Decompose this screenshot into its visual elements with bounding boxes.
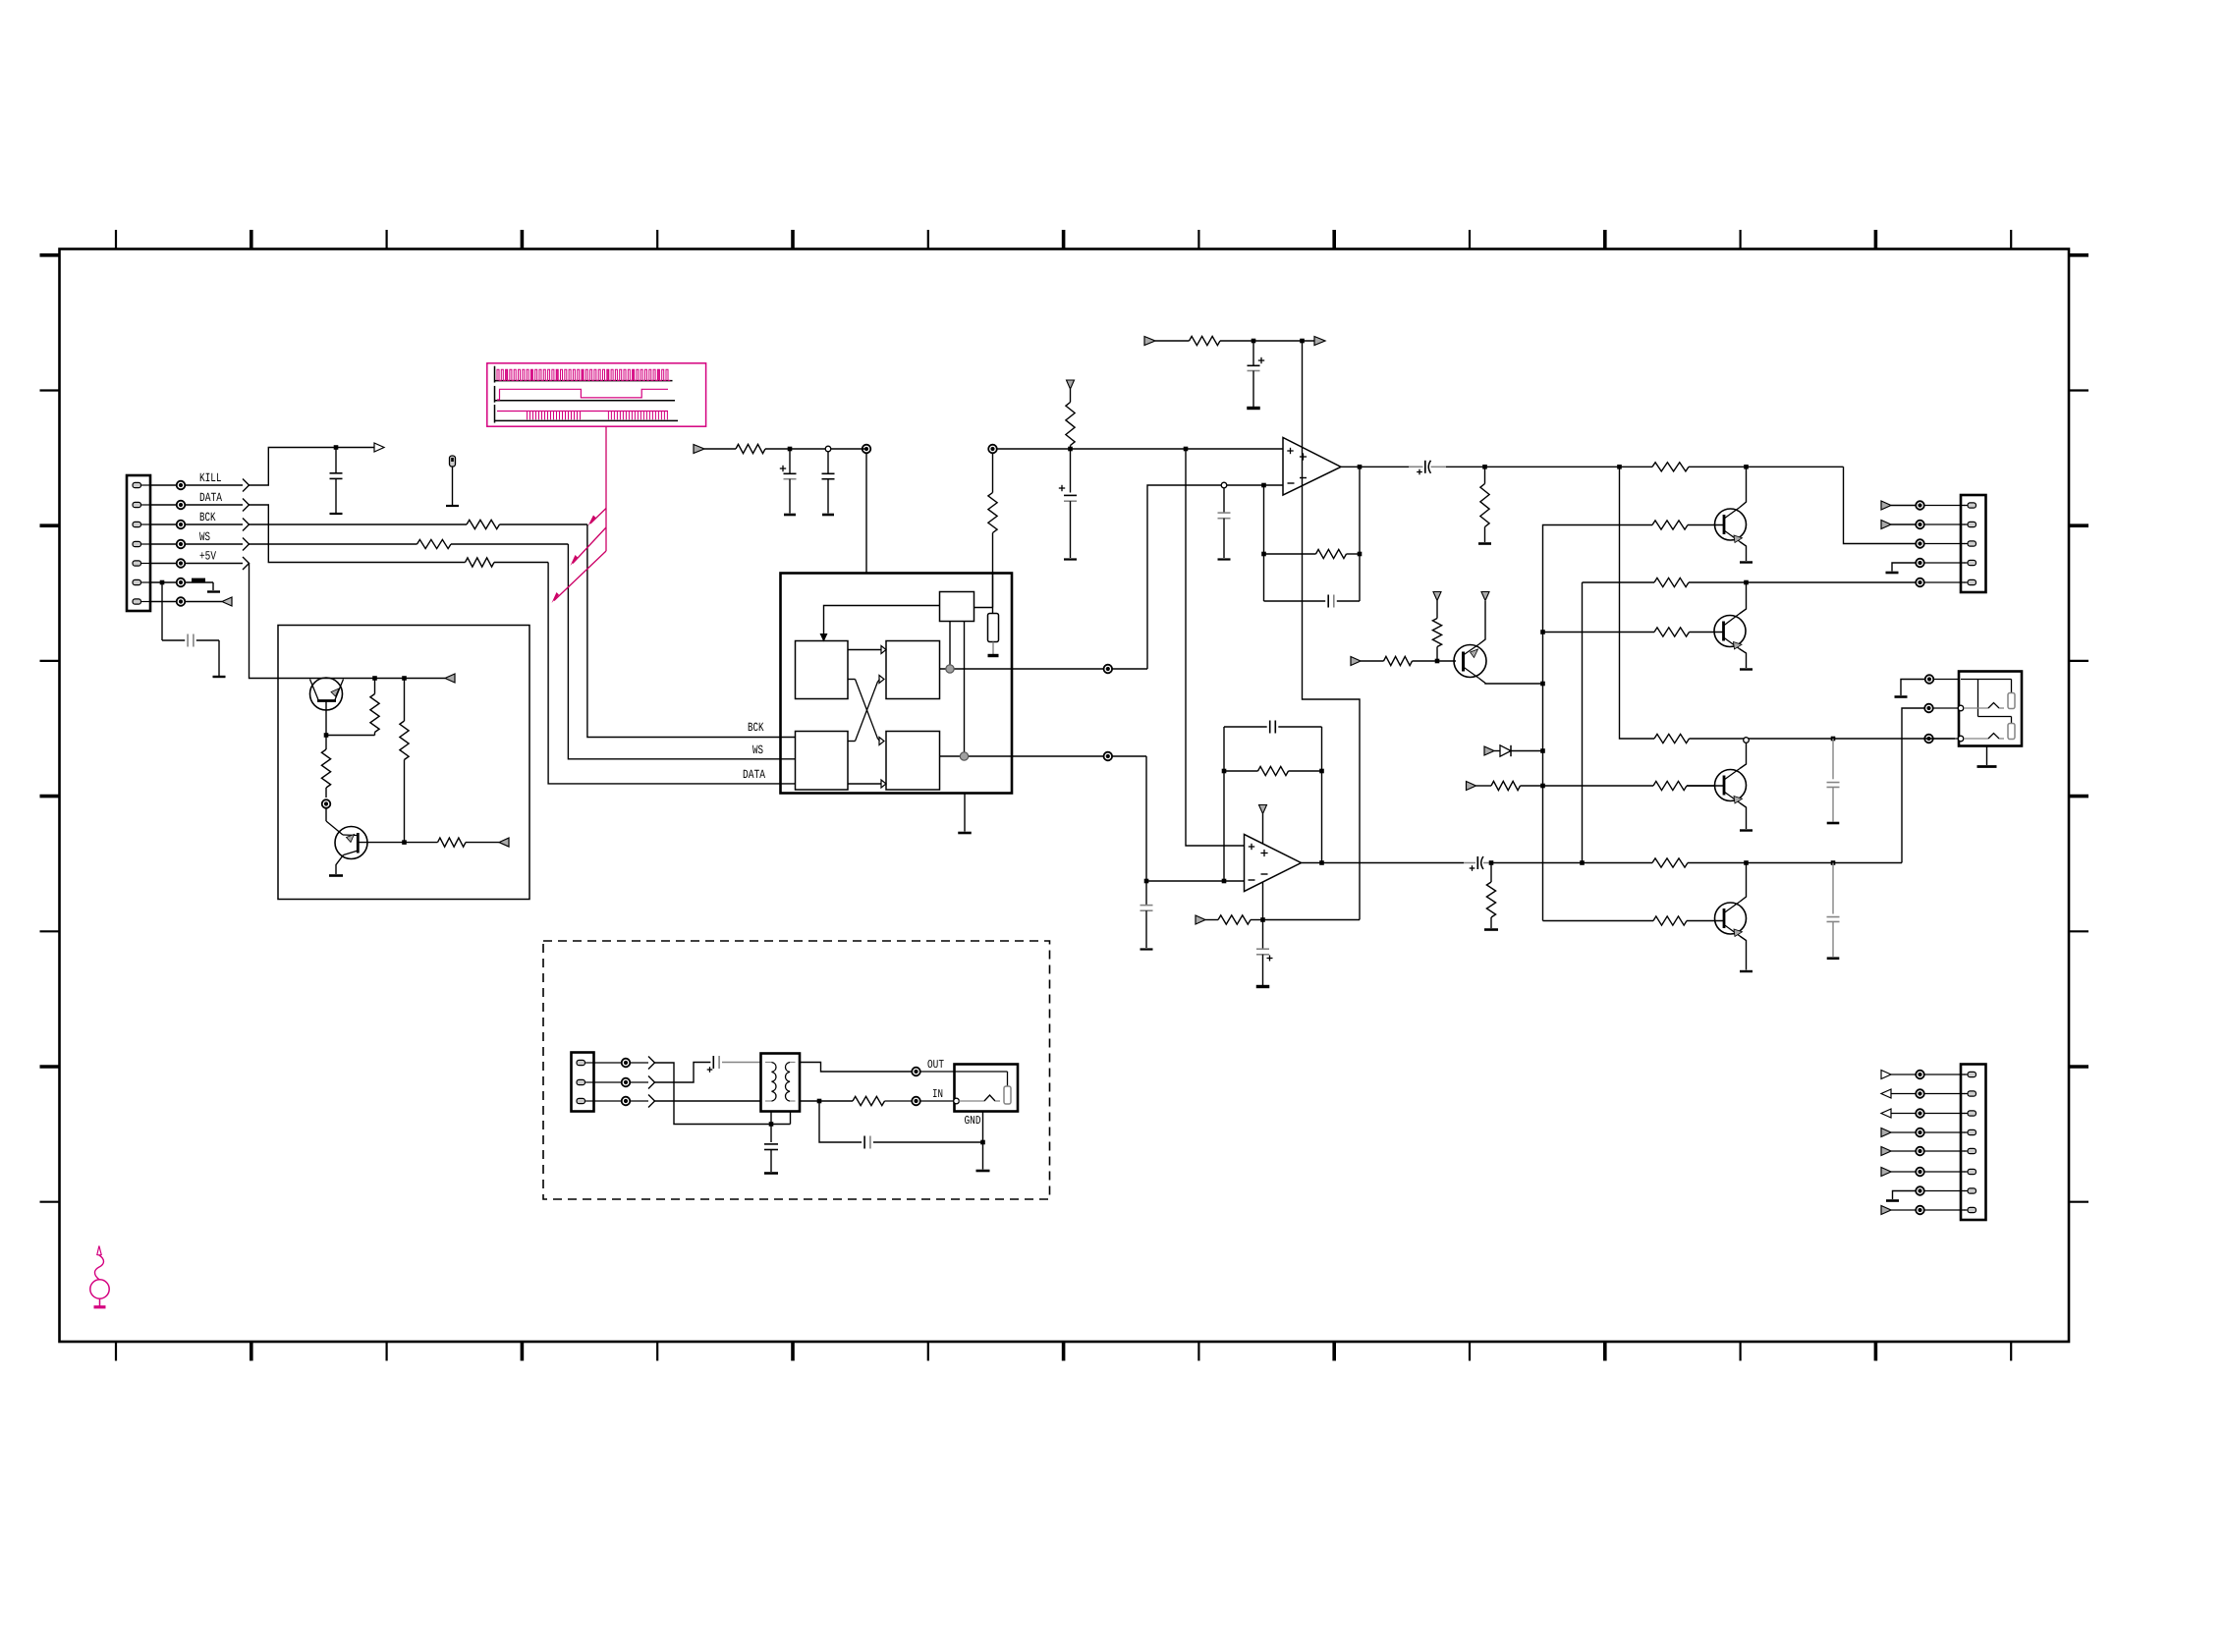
wire DAC out L to op-amp1: [1104, 483, 1284, 674]
svg-text:+5V: +5V: [199, 550, 216, 564]
U1 internal block B: [886, 641, 940, 699]
op-amp U3: [1245, 835, 1302, 892]
resistor R16 rail R series: [1654, 578, 1689, 586]
arrow J5 row8: [1881, 1206, 1891, 1215]
capacitor C13 headphone L: [1827, 739, 1840, 823]
resistor R11 bias: [1190, 336, 1221, 345]
wire KILL net: [250, 448, 375, 486]
wire BCK net: [250, 524, 796, 738]
resistor R20 feedback R: [1258, 766, 1289, 775]
resistor R10 vertical: [988, 493, 997, 533]
J4 internals: [1958, 680, 2015, 742]
resistor R27 Q6 base: [1543, 781, 1715, 790]
svg-text:WS: WS: [752, 743, 763, 757]
svg-text:BCK: BCK: [199, 511, 216, 524]
resistor R8 supply: [736, 444, 765, 453]
resistor R5 bias: [400, 679, 409, 843]
capacitor C2 below J1: [162, 582, 226, 677]
transistor Q3: [1454, 601, 1543, 684]
power arrow Q3 collector: [1481, 592, 1489, 601]
svg-text:IN: IN: [932, 1087, 943, 1101]
connector J6: [572, 1053, 595, 1112]
diode D1: [1484, 745, 1543, 756]
J4 row1 ground: [1895, 675, 1960, 696]
wire J6 row3: [655, 1100, 761, 1102]
wire U1 output top: [940, 622, 1104, 674]
J6 rings and chevrons: [594, 1057, 655, 1108]
wire bias rail: [1155, 339, 1314, 344]
wire mute net: [1361, 659, 1456, 664]
sub-circuit box B1: [278, 626, 529, 900]
wire U1 output bottom: [940, 622, 1104, 761]
capacitor C12 rail R: [1827, 863, 1840, 959]
svg-text:OUT: OUT: [927, 1058, 944, 1072]
resistor R24 Q7 base: [1653, 916, 1687, 925]
timing waveform WS: [495, 386, 676, 403]
arrow J5 row5: [1881, 1147, 1891, 1156]
resistor R22 load R: [1484, 863, 1498, 930]
resistor R3 DATA series: [466, 558, 495, 567]
J4 row3 ring: [1924, 735, 1959, 743]
border tick marks: [40, 230, 2089, 1361]
op-amp U2: [1283, 438, 1341, 496]
wire DATA net: [250, 505, 796, 784]
svg-text:WS: WS: [199, 530, 210, 544]
wire U1 control to block A: [820, 606, 940, 642]
wire Q2 emitter to ground: [329, 855, 344, 876]
wire T1 secondary bottom: [800, 1099, 853, 1104]
arrow KILL out: [374, 443, 384, 452]
arrow bias out: [1314, 337, 1325, 346]
wire DAC out R to op-amp2: [1104, 752, 1245, 884]
arrow mute in: [1351, 657, 1361, 666]
arrow rail out left: [445, 674, 455, 683]
arrow bias2 in: [1196, 915, 1205, 924]
wire arrow R7: [466, 838, 509, 847]
resistor R23 rail R series: [1652, 858, 1688, 867]
U1 internal block C: [796, 732, 849, 791]
resistor R15 Q4 base: [1652, 521, 1688, 529]
J4 row2 ring: [1924, 704, 1959, 713]
connector J3: [1961, 495, 1986, 592]
wire headphone feed L: [1620, 467, 1956, 741]
resistor R18 mute series: [1384, 656, 1413, 665]
ground J7: [976, 1112, 990, 1172]
wire DAC VDD drop: [865, 453, 867, 573]
resistor R21 bias2: [1205, 915, 1263, 924]
capacitor C10 electrolytic bias2: [1256, 920, 1273, 987]
svg-text:KILL: KILL: [199, 471, 222, 485]
wire op-amp2 +input: [1186, 449, 1245, 846]
capacitor C7 on inverting node: [1218, 482, 1231, 559]
capacitor C15 transformer ground: [764, 1112, 778, 1174]
antenna symbol: [90, 1246, 109, 1307]
node ring DAC ref: [988, 445, 997, 454]
resistor R9 pullup: [1066, 380, 1075, 449]
wire ref net: [997, 447, 1283, 452]
arrow VCC in: [694, 445, 704, 454]
J1 pin wires and node rings: [150, 481, 185, 606]
arrow J5 row2: [1881, 1089, 1891, 1098]
J5 rings and wires: [1891, 1071, 1966, 1215]
wire op-amp1 output: [1341, 465, 1421, 469]
capacitor C8 output series: [1409, 461, 1446, 475]
wire U1 block A to B arrows: [848, 646, 886, 789]
connector J5: [1961, 1065, 1986, 1221]
ground J3 row4: [1886, 563, 1917, 573]
resistor R12 feedback: [1316, 549, 1347, 558]
wire Q1 emitter rail: [311, 676, 446, 681]
resistor R6 below Q1 base: [321, 736, 330, 798]
transistor Q2: [335, 827, 367, 859]
capacitor C16 IN to GND: [819, 1101, 985, 1149]
arrow J1 pin7 out: [185, 597, 232, 606]
capacitor C3 electrolytic: [780, 449, 797, 515]
ground U1: [958, 794, 972, 834]
arrow J5 row6: [1881, 1168, 1891, 1177]
ground J4 case: [1977, 746, 1997, 767]
connector J7 jack: [954, 1065, 1018, 1112]
arrow J3 row2: [1881, 521, 1891, 529]
resistor R7 output: [438, 838, 467, 847]
signal labels KILL DATA BCK WS +5V: [199, 471, 222, 564]
resistor R13 load to ground: [1478, 467, 1491, 543]
transistor Q4: [1688, 467, 1753, 562]
wire Q5 base link: [1543, 632, 1655, 633]
resistor R14 rail series: [1652, 463, 1689, 471]
resistor R25 headphone L: [1654, 734, 1690, 743]
IC U1 DAC outer box: [781, 574, 1013, 794]
svg-text:DATA: DATA: [743, 768, 765, 782]
transistor Q7: [1687, 863, 1753, 972]
capacitor C5 electrolytic ref: [1059, 449, 1077, 560]
wire J6 row1: [655, 1063, 791, 1127]
wire op-amp2 bias node: [1260, 883, 1360, 922]
ground J5 row7: [1886, 1191, 1916, 1201]
resistor R1 BCK series: [467, 520, 500, 528]
border frame: [60, 249, 2070, 1343]
svg-text:GND: GND: [964, 1114, 980, 1128]
timing waveform clock: [495, 366, 673, 383]
arrow J5 row3: [1881, 1109, 1891, 1118]
resistor R28 to IN: [853, 1096, 955, 1105]
wire bias feed to op-amp2 stage: [1303, 341, 1361, 920]
power arrow op-amp2: [1259, 805, 1267, 845]
transformer T1: [761, 1054, 801, 1112]
wire Q7 base from divider: [1543, 920, 1654, 922]
U1 internal resistor: [988, 614, 999, 656]
resistor R19 mute pullup: [1432, 592, 1441, 662]
wire output rail L: [1446, 465, 1916, 544]
input chevrons: [185, 479, 250, 571]
transistor Q1: [310, 678, 344, 736]
wire rail R to connector: [1583, 580, 1917, 863]
transistor Q5: [1690, 582, 1753, 670]
wire op-amp1 feedback: [1261, 467, 1362, 607]
capacitor C11 output series R: [1464, 856, 1491, 871]
resistor R17 Q5 base: [1654, 628, 1690, 636]
wire Q2 collector: [358, 840, 437, 845]
wire +5V net to transistor box: [250, 564, 311, 679]
wire VCC rail: [704, 447, 866, 452]
test point TP1: [446, 456, 459, 506]
timing diagram box: [487, 363, 706, 426]
capacitor C1 on KILL net: [330, 445, 343, 514]
arrow Q6 in: [1467, 782, 1476, 791]
timing leader line: [552, 426, 607, 603]
svg-text:BCK: BCK: [748, 721, 764, 735]
wire DAC ref drop: [992, 453, 994, 607]
svg-text:DATA: DATA: [199, 491, 222, 505]
dashed sub-circuit box: [543, 941, 1050, 1199]
wire Q4 base from divider: [1540, 525, 1652, 921]
resistor R4 base-emitter: [370, 679, 379, 736]
arrow J5 row1: [1881, 1071, 1891, 1079]
transistor Q6: [1687, 738, 1753, 831]
U1 internal block A: [796, 641, 849, 699]
connector J4 headphone jack: [1959, 672, 2022, 746]
timing waveform DATA: [495, 405, 679, 423]
wire Q1 base node: [324, 733, 375, 738]
capacitor C4: [822, 446, 835, 515]
resistor R2 WS series: [417, 539, 452, 548]
capacitor C6 electrolytic bias: [1247, 341, 1264, 409]
wire J6 row2 via C14: [655, 1056, 761, 1082]
node ring Q1-Q2: [322, 799, 331, 808]
U1 internal block D: [886, 732, 940, 791]
ferrite bead FB1 on J1 pin6: [160, 578, 220, 592]
wire output rail R: [1489, 708, 1925, 865]
wire op-amp2 feedback: [1222, 721, 1324, 882]
wire op-amp2 output: [1302, 860, 1465, 865]
arrow J3 row1: [1881, 501, 1891, 510]
wire to Q2 base: [326, 808, 343, 835]
U1 control box: [940, 592, 974, 622]
wire T1 secondary top to OUT: [800, 1063, 955, 1076]
arrow bias in: [1144, 337, 1155, 346]
wire U1 control right link: [974, 574, 993, 614]
wire WS net: [250, 544, 796, 759]
capacitor C9 inverting node R: [1141, 881, 1153, 950]
connector J1: [127, 475, 150, 611]
resistor R26 Q6 input: [1476, 781, 1543, 790]
node ring DAC VDD: [863, 445, 871, 454]
J3 rings and wires: [1891, 501, 1966, 586]
arrow J5 row4: [1881, 1129, 1891, 1137]
